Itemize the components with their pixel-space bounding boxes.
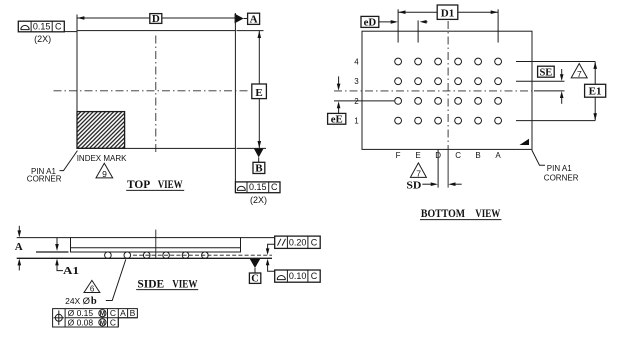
left edge extension line up bbox=[76, 15, 78, 31]
datum C label box bbox=[249, 273, 260, 283]
small arrow pointing down at ball line bbox=[268, 244, 275, 249]
dimension D1 line left part bbox=[398, 11, 437, 13]
svg-text:B: B bbox=[475, 151, 480, 160]
top view package outline bbox=[77, 31, 235, 149]
eD second arrow pointing left bbox=[423, 21, 428, 23]
D1 left arrowhead bbox=[398, 10, 405, 14]
dimension E1 label box bbox=[585, 84, 606, 97]
datum B label box bbox=[253, 162, 265, 173]
svg-text:D: D bbox=[152, 13, 160, 25]
body inner line bbox=[71, 247, 241, 249]
svg-text:M: M bbox=[100, 311, 105, 318]
side view body outline bbox=[71, 238, 241, 252]
dimension D label box bbox=[150, 14, 162, 24]
svg-text:A1: A1 bbox=[63, 265, 79, 277]
E1 bottom arrowhead bbox=[593, 113, 597, 120]
svg-text:1: 1 bbox=[354, 117, 359, 126]
dimension D left arrowhead bbox=[77, 16, 84, 20]
svg-text:PIN A1: PIN A1 bbox=[547, 164, 572, 173]
body bottom extension line left bbox=[36, 251, 69, 253]
datum C triangle bbox=[250, 259, 261, 268]
eE lower arrow pointing up bbox=[338, 107, 340, 113]
svg-text:C: C bbox=[251, 274, 259, 285]
right edge extension line up bbox=[234, 13, 236, 31]
svg-text:TOP: TOP bbox=[127, 177, 150, 191]
dimension D1 line right part bbox=[458, 11, 498, 13]
svg-text:CORNER: CORNER bbox=[544, 173, 579, 182]
parallelism FCF right bbox=[275, 236, 321, 248]
row 4 extension line right bbox=[516, 61, 595, 63]
svg-text:24X Ø b: 24X Ø b bbox=[65, 296, 97, 307]
svg-text:C: C bbox=[271, 182, 278, 192]
svg-text:SE: SE bbox=[539, 67, 552, 78]
column D extension line down bbox=[437, 149, 439, 187]
svg-text:F: F bbox=[396, 151, 401, 160]
svg-text:D1: D1 bbox=[441, 7, 454, 19]
revision triangle 7 below bbox=[410, 163, 426, 178]
svg-text:0.15: 0.15 bbox=[249, 182, 267, 192]
top view vertical centerline bbox=[155, 36, 157, 156]
revision triangle 9 bbox=[96, 163, 113, 178]
svg-text:C: C bbox=[55, 21, 62, 31]
svg-text:6: 6 bbox=[90, 284, 95, 293]
SD left arrow pointing right bbox=[422, 183, 432, 185]
pin A1 leader (top view) bbox=[60, 151, 78, 171]
svg-text:7: 7 bbox=[577, 69, 582, 79]
svg-text:0.20: 0.20 bbox=[289, 237, 307, 247]
svg-text:4: 4 bbox=[354, 57, 359, 66]
svg-text:C: C bbox=[110, 317, 116, 327]
D1 right arrowhead bbox=[491, 10, 498, 14]
revision triangle 7 right bbox=[571, 64, 587, 78]
svg-text:A: A bbox=[495, 151, 501, 160]
datum B triangle bbox=[254, 149, 264, 158]
svg-text:C: C bbox=[311, 271, 318, 281]
svg-text:VIEW: VIEW bbox=[172, 276, 197, 290]
SD right arrow pointing left bbox=[454, 183, 462, 185]
ball grid 6x4 bbox=[395, 58, 502, 124]
dimension A1 upper arrow pointing down bbox=[56, 238, 58, 246]
eE upper arrow pointing down bbox=[338, 76, 340, 84]
row 1 extension line right bbox=[516, 120, 595, 122]
svg-text:eD: eD bbox=[364, 17, 377, 29]
dimension D line left part bbox=[77, 17, 150, 19]
svg-text:A: A bbox=[250, 13, 258, 25]
svg-text:VIEW: VIEW bbox=[475, 206, 500, 220]
E1 top arrowhead bbox=[593, 62, 597, 69]
E top arrowhead bbox=[258, 31, 262, 38]
svg-text:E: E bbox=[415, 151, 420, 160]
side view balls bbox=[105, 252, 209, 259]
column E extension tick bbox=[417, 20, 419, 42]
dimension A1 lower arrow pointing up with leader bbox=[57, 264, 63, 270]
flatness FCF top-left bbox=[18, 21, 64, 32]
svg-text:(2X): (2X) bbox=[250, 195, 267, 205]
svg-text:0.10: 0.10 bbox=[289, 271, 307, 281]
svg-text:2: 2 bbox=[354, 97, 359, 106]
bottom view package outline bbox=[362, 31, 532, 149]
svg-text:E1: E1 bbox=[589, 86, 602, 98]
svg-text:CORNER: CORNER bbox=[27, 174, 62, 183]
E bottom arrowhead bbox=[258, 141, 262, 148]
dimension A upper arrow pointing down bbox=[18, 226, 20, 232]
small arrow pointing up at seating line bbox=[268, 264, 275, 271]
svg-text:E: E bbox=[255, 87, 262, 99]
E dim bottom extension line bbox=[237, 147, 267, 149]
svg-text:eE: eE bbox=[331, 114, 343, 126]
svg-text:7: 7 bbox=[416, 168, 421, 178]
svg-text:9: 9 bbox=[102, 169, 107, 179]
svg-text:SD: SD bbox=[406, 180, 421, 192]
dimension D line right part bbox=[162, 17, 236, 19]
svg-text:A: A bbox=[15, 241, 23, 253]
eE label box bbox=[328, 113, 346, 124]
centerline solid extension right bbox=[534, 90, 565, 92]
pin A1 corner filled triangle marker bbox=[520, 139, 530, 145]
svg-text:VIEW: VIEW bbox=[158, 177, 183, 191]
datum A triangle bbox=[235, 14, 244, 24]
eD label box bbox=[361, 16, 379, 27]
svg-text:(2X): (2X) bbox=[34, 34, 51, 44]
column F extension tick bbox=[397, 9, 399, 42]
right edge extension down to FCF bbox=[234, 148, 236, 182]
svg-text:INDEX MARK: INDEX MARK bbox=[77, 154, 127, 163]
dimension D1 label box bbox=[437, 5, 458, 19]
SE lower arrow pointing up bbox=[561, 97, 563, 103]
row 3 extension line right bbox=[516, 80, 565, 82]
svg-text:BOTTOM: BOTTOM bbox=[421, 206, 465, 220]
body top extension line left bbox=[17, 237, 71, 239]
bottom view vertical centerline bbox=[447, 21, 449, 149]
eD leader line with right arrowhead bbox=[379, 21, 396, 23]
position FCF two rows bbox=[53, 308, 138, 327]
flatness FCF bottom-right bbox=[235, 182, 280, 193]
dimension A lower arrow pointing up bbox=[18, 264, 20, 270]
svg-text:0.15: 0.15 bbox=[33, 21, 51, 31]
svg-text:A: A bbox=[120, 308, 126, 318]
ball diameter leader bbox=[106, 259, 126, 300]
svg-text:B: B bbox=[255, 163, 263, 175]
svg-text:3: 3 bbox=[354, 77, 359, 86]
position symbol bbox=[55, 314, 62, 321]
pin A1 leader (bottom view) bbox=[532, 150, 545, 165]
E dim top extension line bbox=[237, 30, 264, 32]
top view horizontal centerline bbox=[54, 90, 251, 92]
datum A label box bbox=[248, 13, 260, 24]
profile FCF right lower bbox=[275, 270, 321, 282]
ball centers dashed line bbox=[133, 254, 272, 256]
svg-text:Ø 0.08: Ø 0.08 bbox=[68, 317, 94, 327]
row 2 extension line left bbox=[334, 100, 394, 102]
dimension E1 line bbox=[594, 62, 596, 121]
dimension E label box bbox=[252, 84, 267, 99]
bottom view horizontal centerline bbox=[334, 90, 534, 92]
body top extension line right bbox=[241, 237, 275, 239]
svg-text:C: C bbox=[311, 237, 318, 247]
svg-text:B: B bbox=[130, 308, 136, 318]
FCF leader to top edge bbox=[64, 31, 77, 33]
SE upper arrow pointing down bbox=[561, 69, 563, 75]
index mark hatched square bbox=[77, 112, 125, 149]
side view centerline bbox=[155, 230, 157, 259]
svg-text:SIDE: SIDE bbox=[137, 276, 164, 290]
column A extension tick bbox=[497, 9, 499, 42]
svg-text:C: C bbox=[455, 151, 461, 160]
SE label box bbox=[538, 66, 555, 77]
dimension E line bbox=[258, 31, 260, 149]
seating plane line bbox=[17, 257, 272, 259]
revision triangle 6 bbox=[84, 280, 100, 292]
svg-text:M: M bbox=[100, 320, 105, 327]
